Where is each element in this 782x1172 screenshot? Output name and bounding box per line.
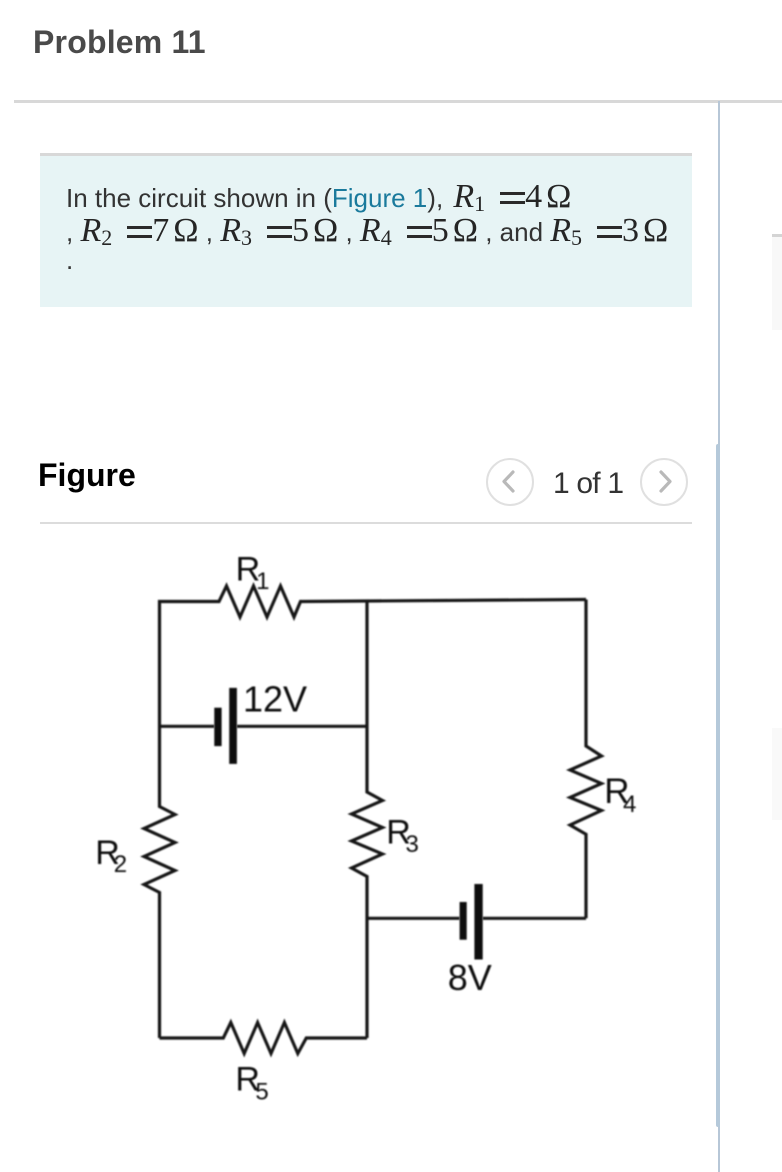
svg-text:2: 2 [114, 851, 127, 878]
svg-text:3: 3 [406, 831, 419, 858]
svg-text:12V: 12V [243, 679, 307, 720]
svg-text:8V: 8V [448, 957, 492, 998]
svg-text:1: 1 [256, 568, 269, 595]
svg-text:5: 5 [255, 1079, 268, 1106]
svg-text:4: 4 [623, 791, 636, 818]
